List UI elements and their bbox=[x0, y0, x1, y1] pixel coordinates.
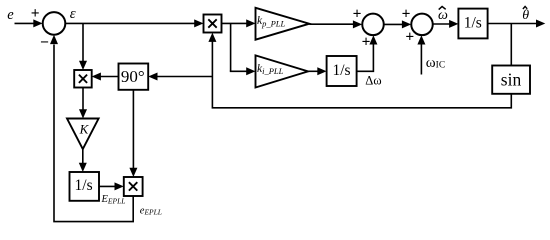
wire ki to integrator I1 bbox=[308, 70, 319, 72]
phase shift 90deg block bbox=[119, 64, 149, 90]
svg-text:−: − bbox=[40, 34, 49, 51]
wire omega_IC into sum3 bbox=[420, 44, 422, 75]
svg-text:+: + bbox=[362, 34, 371, 51]
output wire theta-hat bbox=[488, 23, 538, 25]
integrator I1 box 1/s bbox=[327, 56, 357, 86]
svg-text:+: + bbox=[402, 6, 411, 23]
svg-text:1/s: 1/s bbox=[332, 62, 350, 79]
wire feedback branch to 90deg block bbox=[156, 76, 212, 78]
wire sum2 to sum3 bbox=[384, 23, 403, 25]
svg-text:1/s: 1/s bbox=[464, 14, 482, 31]
wire e to summing junction bbox=[15, 22, 36, 24]
integrator I3 box 1/s bbox=[70, 172, 100, 201]
wire 90deg down to MC bbox=[132, 90, 134, 169]
summing junction sum2 bbox=[362, 14, 384, 36]
wire theta branch down to sin bbox=[510, 24, 512, 66]
wire MB to gain K bbox=[82, 88, 84, 111]
wire to ki gain bbox=[230, 70, 248, 72]
wire epsilon branch down to multiplier MB bbox=[82, 23, 84, 61]
wire sum1 to multiplier MA bbox=[65, 22, 195, 24]
multiplier MA box bbox=[204, 15, 222, 33]
svg-text:EEPLL: EEPLL bbox=[101, 194, 126, 205]
summing junction sum1 bbox=[43, 12, 66, 35]
wire I3 to multiplier MC bbox=[99, 185, 116, 187]
multiplier MC box bbox=[124, 177, 143, 196]
sin block bbox=[492, 66, 530, 94]
svg-text:90°: 90° bbox=[121, 67, 145, 86]
wire sum3 to integrator I2 bbox=[433, 23, 450, 25]
feedback wire sin to MA bottom bbox=[212, 42, 511, 108]
wire 90deg to multiplier MB bbox=[100, 76, 119, 78]
gain K triangle bbox=[67, 119, 99, 150]
wire branch down to ki path bbox=[230, 23, 232, 71]
svg-text:ε: ε bbox=[70, 6, 76, 22]
svg-text:Δω: Δω bbox=[365, 73, 381, 87]
svg-text:1/s: 1/s bbox=[75, 177, 93, 194]
feedback wire MC to sum1 minus input bbox=[54, 45, 133, 222]
wire kp to sum2 bbox=[309, 23, 354, 25]
integrator I2 box 1/s bbox=[458, 9, 487, 39]
svg-text:+: + bbox=[353, 6, 362, 23]
gain ki_PLL triangle bbox=[256, 55, 309, 87]
wire MA to kp gain bbox=[222, 22, 248, 24]
summing junction sum3 bbox=[411, 14, 433, 36]
svg-text:θ: θ bbox=[522, 8, 529, 23]
svg-text:+: + bbox=[31, 5, 40, 22]
wire K to integrator I3 bbox=[82, 149, 84, 164]
wire I1 up to sum2 bbox=[357, 44, 374, 71]
svg-text:K: K bbox=[79, 122, 90, 137]
svg-text:ω: ω bbox=[438, 8, 448, 23]
gain kp_PLL triangle bbox=[256, 8, 310, 40]
multiplier MB box bbox=[74, 70, 92, 88]
svg-text:sin: sin bbox=[501, 70, 522, 90]
svg-text:eEPLL: eEPLL bbox=[140, 206, 162, 217]
svg-text:e: e bbox=[7, 7, 14, 23]
svg-text:+: + bbox=[405, 29, 414, 46]
